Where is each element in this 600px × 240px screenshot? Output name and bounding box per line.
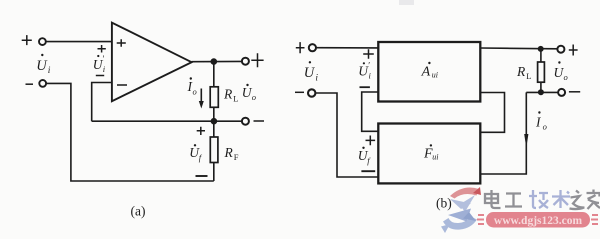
char dian [485, 190, 501, 208]
label + at output terminal (b) [569, 45, 578, 56]
svg-text:f: f [199, 153, 203, 163]
svg-text:ui: ui [432, 71, 438, 80]
watermark text dian-gong-ji-shu-zhi-jia (hand drawn strokes) [485, 190, 522, 208]
label + above Uf (b) [366, 136, 376, 146]
polarity marks (a) drawn as strokes [22, 35, 264, 176]
svg-text:R: R [516, 64, 526, 79]
label + at input terminal (b) [296, 42, 305, 53]
char shu [552, 190, 570, 208]
svg-text:o: o [193, 87, 197, 97]
wire: bottom output rail [92, 120, 242, 122]
wire: op-amp inverting input to feedback node [92, 83, 112, 122]
label - at input terminal (b) [295, 91, 304, 93]
junction node RL top (b) [538, 46, 544, 52]
op-amp U1 triangle [112, 23, 192, 102]
label - below U'i node [96, 75, 104, 77]
wire: - input terminal to bottom-left rail [46, 83, 214, 181]
wire: RF bottom to bottom rail [213, 163, 215, 182]
char jia [587, 190, 600, 210]
wire: A lower output to F upper-right [480, 93, 504, 133]
wire: A output to + output terminal [480, 47, 557, 50]
resistor RF (a) [210, 137, 218, 163]
terminal + output (a) [242, 58, 249, 65]
terminal - input (a) [39, 80, 46, 87]
svg-text:i: i [48, 66, 51, 76]
amplifier block A [378, 42, 480, 102]
feedback block F [378, 124, 480, 184]
label - below Uf (b) [361, 170, 375, 172]
label - below U'i (b) [360, 86, 370, 88]
wire: bottom output rail (b) [526, 91, 558, 93]
wire: - input terminal outer loop to F [316, 93, 379, 177]
faint scan mark top [399, 0, 414, 5]
current Io arrowhead (a) [199, 101, 204, 109]
label + inside op-amp [117, 39, 126, 47]
label + at output terminal (a) [251, 53, 263, 67]
terminal - input (b) [308, 89, 315, 96]
wire: output node to RL top [213, 62, 215, 87]
wire: op-amp output to + output terminal [192, 60, 242, 62]
resistor RL (b) [538, 62, 545, 82]
svg-text:R: R [223, 87, 233, 102]
svg-text:www.dgjs123.com: www.dgjs123.com [494, 215, 583, 227]
wire: output current path into F lower-right [480, 92, 526, 174]
svg-text:I: I [535, 115, 542, 130]
svg-text:′: ′ [103, 54, 105, 64]
terminal - output (a) [242, 118, 249, 125]
svg-text:′: ′ [368, 61, 370, 71]
wire: node to RF top [213, 121, 215, 137]
resistor RL (a) [210, 87, 218, 108]
label - below RF [196, 175, 208, 177]
label + above U'i node [98, 45, 106, 53]
watermark logo S-swoosh [441, 187, 481, 233]
label - at output terminal (b) [569, 91, 580, 93]
svg-text:U: U [36, 58, 48, 74]
svg-text:L: L [233, 94, 238, 104]
svg-text:i: i [103, 64, 106, 74]
junction node output top (a) [211, 58, 218, 65]
svg-text:A: A [421, 65, 431, 80]
svg-text:ui: ui [432, 153, 438, 162]
junction node output bottom (a) [211, 118, 218, 125]
char zhi [570, 191, 585, 210]
svg-text:i: i [369, 71, 372, 81]
polarity marks (b) [295, 42, 580, 171]
svg-text:f: f [367, 156, 371, 166]
junction node RL bottom (b) [538, 89, 544, 95]
svg-text:U: U [304, 65, 316, 81]
terminal - output (b) [558, 89, 565, 96]
terminal + input (a) [39, 38, 46, 45]
svg-text:o: o [543, 122, 547, 132]
wire: + input to block A [316, 47, 378, 49]
label + above U'i (b) [363, 49, 374, 59]
label - at output terminal (a) [254, 120, 265, 122]
current Io arrowhead (b) [524, 134, 528, 148]
svg-text:(a): (a) [131, 204, 146, 219]
terminal + output (b) [557, 46, 564, 53]
current Io arrow (a) [200, 89, 202, 103]
svg-text:L: L [526, 71, 531, 81]
text labels diagram (b) [304, 61, 568, 166]
label + above RF [197, 127, 205, 135]
wire: RL bottom to node [213, 107, 215, 121]
svg-text:o: o [252, 92, 256, 102]
wire: A lower input to F upper-left [362, 92, 379, 131]
text labels diagram (a) [36, 54, 256, 219]
wire: RL bottom to node (b) [540, 82, 542, 92]
terminal + input (b) [309, 44, 316, 51]
svg-text:i: i [315, 74, 318, 84]
watermark url pill [477, 212, 598, 228]
svg-text:F: F [234, 152, 239, 162]
svg-text:(b): (b) [436, 196, 452, 211]
char ji [529, 190, 548, 208]
label - inside op-amp [117, 84, 127, 86]
label - at input terminal [26, 83, 34, 85]
svg-text:o: o [564, 72, 568, 82]
label + at input terminal [22, 35, 32, 45]
char gong [505, 194, 522, 207]
svg-text:R: R [224, 145, 234, 160]
wire: output node to RL top (b) [540, 49, 542, 62]
wire: + input terminal to op-amp [46, 41, 112, 43]
